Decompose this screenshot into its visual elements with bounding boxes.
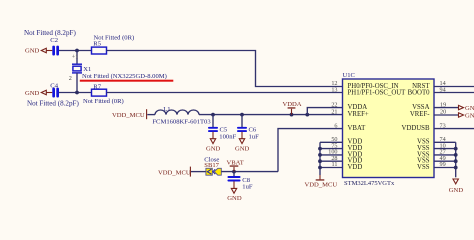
svg-text:VBAT: VBAT <box>227 159 244 166</box>
VDD bus left <box>319 142 321 175</box>
svg-text:Not Fitted (NX3225GD-8.00M): Not Fitted (NX3225GD-8.00M) <box>82 73 167 80</box>
power GND (VSSA) <box>459 105 474 112</box>
ground below C8 <box>227 181 242 202</box>
VSS bus right <box>455 142 457 177</box>
wire port to L1 <box>147 114 155 116</box>
svg-text:2: 2 <box>69 75 72 82</box>
wire VDDUSB pin 73 <box>434 128 474 130</box>
ground below C5 <box>206 132 221 153</box>
wire junction down to crystal <box>76 51 78 65</box>
svg-text:6: 6 <box>334 122 337 129</box>
svg-text:VDD_MCU: VDD_MCU <box>158 169 191 176</box>
svg-text:21: 21 <box>331 108 337 115</box>
capacitor C4 <box>27 82 79 107</box>
svg-text:VSS: VSS <box>417 164 430 171</box>
node junction top rail <box>75 49 79 53</box>
svg-text:100nF: 100nF <box>219 134 236 141</box>
svg-text:PH1/PF1-OSC_OUT: PH1/PF1-OSC_OUT <box>348 90 407 97</box>
node pin22 branch junction <box>305 113 309 117</box>
power VDDA <box>283 101 302 114</box>
wire VSSA pin 19 to GND <box>434 107 458 109</box>
resistor R5 <box>92 34 135 54</box>
svg-text:U1C: U1C <box>343 72 356 79</box>
svg-text:BOOT0: BOOT0 <box>408 90 431 97</box>
power VDD_MCU below bus <box>305 175 338 188</box>
svg-text:11: 11 <box>332 161 338 168</box>
wire VBAT junction to chip pin 6 <box>278 129 343 172</box>
port VDD_MCU (SB17 input) <box>158 167 191 177</box>
ground GND (C2 left) <box>25 48 52 55</box>
svg-text:Not Fitted (8.2pF): Not Fitted (8.2pF) <box>27 100 79 108</box>
wire VREF- pin 20 to GND <box>434 114 458 116</box>
svg-text:FCM1608KF-601T03: FCM1608KF-601T03 <box>152 119 211 126</box>
svg-text:Not Fitted (8.2pF): Not Fitted (8.2pF) <box>24 29 76 37</box>
svg-text:C6: C6 <box>249 126 257 133</box>
svg-text:VDDUSB: VDDUSB <box>402 125 430 132</box>
svg-text:VDD_MCU: VDD_MCU <box>112 112 145 119</box>
wire port to SB17 <box>191 171 206 173</box>
resistor R7 <box>83 83 124 105</box>
svg-text:VBAT: VBAT <box>348 125 367 132</box>
svg-text:13: 13 <box>331 87 337 94</box>
svg-text:1uF: 1uF <box>242 184 253 191</box>
power VBAT <box>227 159 244 171</box>
wire branch to pin 22 <box>307 108 342 115</box>
wire crystal to bottom rail <box>76 73 78 93</box>
svg-text:VDD: VDD <box>348 164 363 171</box>
crystal X1 <box>69 54 92 83</box>
svg-text:GND: GND <box>465 113 474 120</box>
svg-text:GND: GND <box>25 48 40 55</box>
node junction bottom rail <box>75 91 79 95</box>
svg-text:22: 22 <box>331 101 337 108</box>
svg-text:GND: GND <box>227 195 242 202</box>
svg-text:GND: GND <box>25 90 40 97</box>
svg-text:VREF-: VREF- <box>410 111 430 118</box>
svg-text:1uF: 1uF <box>249 134 260 141</box>
svg-text:STM32L475VGTx: STM32L475VGTx <box>344 180 395 187</box>
port VDD_MCU (L1 input) <box>112 109 147 119</box>
IC U1C (STM32L475VGTx) body <box>343 79 435 178</box>
svg-text:C5: C5 <box>220 126 228 133</box>
svg-text:GND: GND <box>235 145 250 152</box>
svg-text:VDD_MCU: VDD_MCU <box>305 181 338 188</box>
wire SB17 to junction <box>222 171 279 173</box>
capacitor C5 <box>208 115 236 141</box>
svg-text:VREF+: VREF+ <box>348 111 369 118</box>
wire C2 to junction and R5 <box>59 50 92 52</box>
svg-text:Not Fitted (0R): Not Fitted (0R) <box>83 98 124 105</box>
svg-text:C2: C2 <box>50 37 58 44</box>
wire BOOT0 pin 94 <box>434 92 474 94</box>
svg-text:VSSA: VSSA <box>412 104 429 111</box>
wire VDDA rail L1 to chip pin 21 <box>199 114 343 116</box>
ground GND (C4 left) <box>25 90 52 97</box>
svg-text:Not Fitted (0R): Not Fitted (0R) <box>94 34 135 41</box>
capacitor C8 <box>228 172 253 191</box>
svg-text:VDDA: VDDA <box>283 101 302 108</box>
svg-text:VDDA: VDDA <box>348 104 368 111</box>
svg-text:+1: +1 <box>72 54 79 61</box>
ground below VSS bus <box>449 179 464 194</box>
svg-text:20: 20 <box>440 108 446 115</box>
svg-text:GND: GND <box>449 187 464 194</box>
wire R7 to chip pin 13 <box>107 92 343 94</box>
inductor L1 <box>152 106 211 125</box>
ground below C6 <box>235 132 250 153</box>
solder bridge SB17 <box>204 157 221 176</box>
capacitor C6 <box>237 115 259 141</box>
node VDDA junction <box>290 113 294 117</box>
svg-text:GND: GND <box>206 145 221 152</box>
power GND (VREF-) <box>459 113 474 120</box>
wire R5 to chip pin 12 <box>107 51 343 87</box>
red highlight line <box>80 80 174 82</box>
node C6 junction <box>240 113 244 117</box>
node C5 junction <box>211 113 215 117</box>
wire NRST pin 14 <box>434 86 474 88</box>
capacitor C2 <box>24 29 76 56</box>
svg-text:GND: GND <box>465 105 474 112</box>
node VBAT junction <box>232 170 236 174</box>
wire C4 to junction and R7 <box>59 92 92 94</box>
svg-text:X1: X1 <box>83 66 91 73</box>
